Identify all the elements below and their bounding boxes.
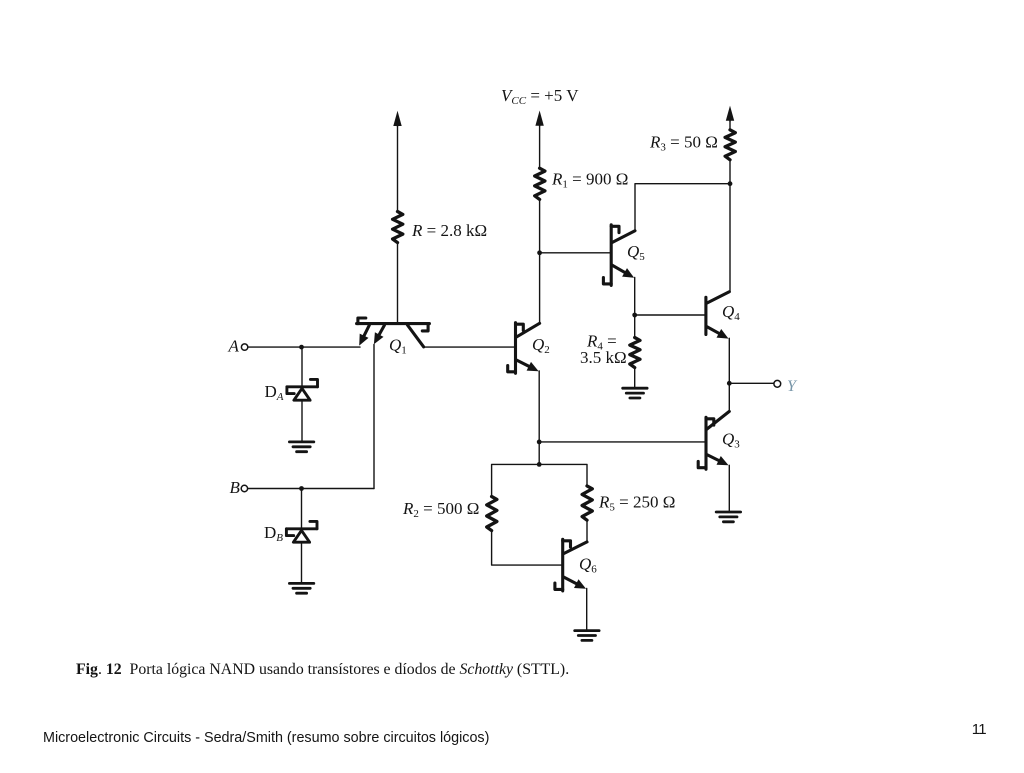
transistor Q6 (Schottky npn) [561, 539, 564, 591]
wire (R4 to ground) [634, 368, 636, 388]
svg-text:R1​ = 900 Ω: R1​ = 900 Ω [551, 170, 628, 191]
terminal A (open circle) [241, 344, 247, 350]
node J2 (R3/Q5 collector junction) dot [728, 181, 733, 186]
wire (DB to ground) [301, 543, 303, 582]
resistor R2 (500 Ohm) zigzag [487, 497, 497, 531]
wire (Q1 collector to Q2 base) [424, 346, 516, 348]
wire (Q1 emitter 2 down to B line) [373, 344, 375, 488]
power arrow VCC [535, 111, 543, 126]
wire (R5 bottom to Q6 collector) [586, 520, 588, 542]
node J6 (R2/R5 junction) dot [537, 462, 542, 467]
wire (R2 bottom to Q6 base) [492, 531, 563, 566]
wire (Q5 emitter down to R4, through J3) [634, 278, 636, 338]
ground (below Q3) [716, 511, 740, 514]
transistor Q1 (two-emitter Schottky npn) [357, 322, 430, 325]
wire (arrow to R3 top) [729, 119, 731, 130]
page number [972, 721, 986, 738]
node J1 (R1/Q5 base junction) dot [537, 250, 542, 255]
wire (J3 to Q4 base) [635, 314, 706, 316]
wire (R1 bottom down to Q2 collector) [539, 199, 541, 323]
diode DA (Schottky clamp) [287, 385, 318, 388]
wire (input A) [248, 346, 360, 348]
wire (Q3 emitter to ground) [728, 465, 730, 511]
svg-text:A: A [228, 336, 240, 355]
svg-text:Q1​: Q1​ [389, 336, 407, 357]
wire (Q6 emitter to ground) [586, 589, 588, 630]
svg-text:B: B [230, 478, 241, 497]
wire (R3 bottom through J2 to Q4 collector) [729, 160, 731, 292]
svg-text:Q3​: Q3​ [722, 430, 740, 451]
power arrow to VCC (above R) [393, 111, 401, 126]
resistor R3 (50 Ohm) zigzag [725, 130, 735, 160]
node J4 (output node) dot [727, 381, 732, 386]
terminal B (open circle) [241, 485, 247, 491]
ground (below DA) [289, 440, 313, 443]
wire (DA to ground) [301, 401, 303, 441]
transistor Q3 (Schottky npn) [704, 417, 707, 469]
ground (below Q6) [575, 629, 599, 632]
transistor Q2 (Schottky npn) [514, 323, 517, 374]
ground (below R4) [623, 387, 647, 390]
resistor R5 (250 Ohm) zigzag [582, 486, 592, 520]
svg-text:Q4​: Q4​ [722, 302, 740, 323]
svg-text:3.5 kΩ: 3.5 kΩ [580, 348, 627, 367]
resistor R4 (3.5 kOhm) zigzag [630, 338, 640, 368]
power arrow (above R3) [726, 106, 734, 121]
node (A / DA junction) dot [299, 345, 304, 350]
wire (VCC arrow to R1) [539, 124, 541, 168]
transistor Q5 (Schottky npn) [610, 225, 613, 286]
ground (below DB) [289, 582, 313, 585]
wire (B node down to DB) [301, 489, 303, 528]
node J5 (Q2 emitter / Q3 base junction) dot [537, 440, 542, 445]
wire (arrow to R top) [397, 124, 399, 212]
figure caption [76, 661, 569, 679]
wire (input B) [248, 488, 374, 490]
wire (Q2 emitter down through J5 to J6) [538, 371, 540, 464]
svg-text:Q6​: Q6​ [579, 555, 597, 576]
terminal Y (open circle) [774, 380, 781, 387]
resistor R1 (900 Ohm) zigzag [535, 168, 545, 199]
svg-text:R2​ = 500 Ω: R2​ = 500 Ω [402, 499, 479, 520]
svg-text:R5​ = 250 Ω: R5​ = 250 Ω [598, 493, 675, 514]
node J3 (Q5 emitter / Q4 base junction) dot [632, 313, 637, 318]
wire (J4 to output terminal) [729, 382, 774, 384]
svg-text:VCC​ = +5 V: VCC​ = +5 V [501, 86, 579, 107]
wire (A node down to DA) [301, 347, 303, 385]
svg-text:DB​: DB​ [264, 523, 283, 544]
resistor R (2.8 kOhm) zigzag [393, 212, 403, 243]
wire (J2 left and down to Q5 collector) [635, 184, 730, 231]
footer text [43, 730, 489, 746]
svg-text:Q5​: Q5​ [627, 242, 645, 263]
wire (R bottom to Q1 base bar) [397, 243, 399, 323]
svg-text:Y: Y [787, 378, 798, 395]
transistor Q4 (npn) [704, 297, 707, 334]
wire (J6 branch to R2 and R5) [492, 464, 587, 496]
node (B / DB junction) dot [299, 486, 304, 491]
svg-text:Q2​: Q2​ [532, 335, 550, 356]
svg-text:R = 2.8 kΩ: R = 2.8 kΩ [411, 221, 487, 240]
svg-text:R3​ = 50 Ω: R3​ = 50 Ω [649, 133, 718, 154]
wire (J5 to Q3 base) [539, 441, 706, 443]
wire (Q4 emitter down through J4 to Q3 collector) [728, 338, 730, 411]
svg-text:DA​: DA​ [265, 382, 284, 403]
diode DB (Schottky clamp) [286, 527, 317, 530]
wire (J1 to Q5 base) [540, 252, 612, 254]
